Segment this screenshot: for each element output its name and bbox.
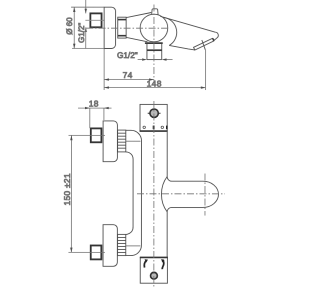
bottom view: upper elbow inner wall <box>126 130 142 160</box>
arrow G1/2 pipe right <box>162 58 167 60</box>
bottom view: spout base arc <box>161 177 167 212</box>
dim 150 line <box>70 135 72 252</box>
arrow G1/2 pipe left <box>142 58 147 60</box>
arrow dia60 top <box>73 7 75 12</box>
bottom view: upper handle plate <box>140 104 167 131</box>
top view: shower pipe right wall <box>161 44 163 60</box>
dim line G1/2 lower segment <box>85 27 87 48</box>
top view: spout top edge <box>160 16 215 32</box>
bottom view: lower plate left arrow icon <box>144 261 146 268</box>
bottom view: spout neck lower vertical <box>167 207 203 257</box>
arrow G1/2 down <box>85 9 87 14</box>
bottom view: upper plate center slot <box>153 126 155 130</box>
bottom view: aerator vertical center line <box>204 174 206 216</box>
bottom view: upper plate screw outer <box>150 109 158 117</box>
lower inlet center line <box>68 251 104 253</box>
top view: wall union square <box>90 13 101 27</box>
bottom view: upper plate small hole right <box>161 126 163 128</box>
dim 150 bottom arrow <box>70 248 72 253</box>
arrow 148 right <box>201 86 206 88</box>
svg-text:G1/2": G1/2" <box>117 51 138 60</box>
top view: shower pipe end edge <box>147 59 162 61</box>
bottom view: lower plate left arrow head <box>145 259 148 262</box>
bottom view: lower wall square <box>91 245 102 259</box>
bottom view: spout neck upper vertical <box>167 131 203 181</box>
bottom view: main vertical center line <box>153 101 155 287</box>
extension line left (wall face) <box>103 49 105 90</box>
top view: nut chamfer band bottom <box>118 35 126 37</box>
bottom view: body tube left wall <box>132 170 134 227</box>
top view: wall union center line <box>85 19 104 21</box>
dim line dia60 <box>73 7 75 48</box>
arrow 74 right <box>149 78 154 80</box>
bottom view: lower plate right arrow icon <box>162 260 163 270</box>
top view: cone lower line <box>126 37 147 41</box>
top view: shower outlet collar <box>145 42 163 44</box>
dim line G1/2 upper segment <box>85 0 87 13</box>
top view: nut chamfer band top <box>118 19 126 21</box>
svg-text:150 ±21: 150 ±21 <box>62 173 72 205</box>
top view: spout tip round <box>214 32 219 41</box>
dim line 148 <box>104 87 205 89</box>
top view: knob circle <box>140 14 168 42</box>
svg-text:18: 18 <box>89 99 99 109</box>
top view: escutcheon flange <box>104 7 115 48</box>
svg-text:148: 148 <box>147 79 162 89</box>
dim extension: lower edge for dia60 <box>72 47 104 49</box>
bottom view: lower elbow inner wall <box>126 245 142 256</box>
svg-text:74: 74 <box>123 70 133 80</box>
dim line 74 <box>104 79 154 81</box>
extension line spout tip <box>204 50 206 90</box>
top view: aerator tick line <box>202 40 206 50</box>
bottom view: spout dome <box>203 181 219 207</box>
upper inlet center line <box>69 134 106 136</box>
dim 18 ext right <box>103 108 105 120</box>
bottom view: upper elbow outer wall <box>126 152 133 170</box>
bottom view: lower plate screw <box>151 272 158 279</box>
bottom view: upper wall square <box>91 128 102 142</box>
bottom view: upper plate right slot <box>166 126 168 130</box>
bottom view: upper plate screw side ticks <box>148 112 161 114</box>
top view: cone upper line <box>126 12 151 17</box>
arrow G1/2 up <box>85 27 87 32</box>
bottom view: lower elbow outer wall <box>126 227 133 234</box>
top view: spout bottom edge <box>169 45 195 50</box>
bottom view: upper ribbed nut <box>118 130 126 152</box>
bottom view: upper plate small hole left <box>143 126 145 128</box>
bottom view: lower valve stem line <box>126 245 141 247</box>
dim extension: escutcheon top <box>71 6 104 8</box>
bottom view: upper nut ribs <box>118 133 126 148</box>
top view: spout body rear arc <box>164 17 177 45</box>
bottom view: body tube right wall upper <box>140 160 142 245</box>
bottom view: lower handle plate <box>140 257 167 283</box>
dim 18 ext left <box>89 108 91 128</box>
dim 18 left arrow <box>85 107 90 109</box>
top view: shower pipe thread band <box>147 49 162 51</box>
top view: connection nut <box>118 17 126 38</box>
svg-text:Ø 60: Ø 60 <box>65 17 74 35</box>
bottom view: lower plate right arrow head <box>161 259 164 263</box>
bottom view: lower ribbed nut <box>118 234 126 255</box>
bottom view: lower escutcheon <box>103 225 117 267</box>
arrow 148 left <box>104 86 109 88</box>
dim 150 top arrow <box>70 135 72 140</box>
dim 18 right arrow <box>104 107 109 109</box>
arrow dia60 bottom <box>73 44 75 49</box>
top view: shower pipe left wall <box>146 44 148 60</box>
center line horizontal top view <box>86 27 170 29</box>
svg-text:G1/2": G1/2" <box>77 23 86 43</box>
dim 18 line <box>78 107 111 109</box>
bottom view: spout horizontal center line <box>137 193 225 195</box>
bottom view: upper valve stem line <box>126 140 141 142</box>
top view: knob cap <box>152 9 158 15</box>
arrow 74 left <box>104 78 109 80</box>
bottom view: upper escutcheon <box>103 121 117 162</box>
top view: aerator band <box>194 39 214 51</box>
center line vertical through knob <box>153 5 155 82</box>
bottom view: lower nut ribs <box>118 237 126 252</box>
